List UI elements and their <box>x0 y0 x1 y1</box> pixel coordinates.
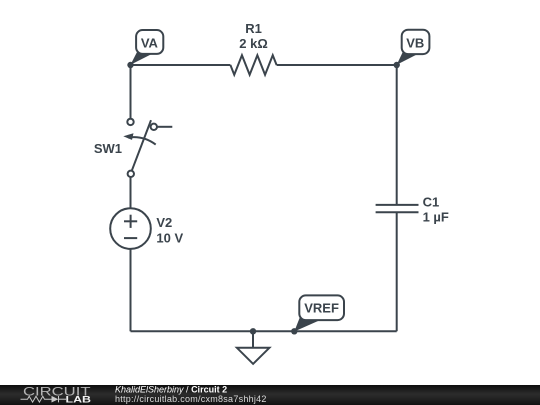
capacitor C1 plates <box>376 204 419 206</box>
svg-text:http://circuitlab.com/cxm8sa7s: http://circuitlab.com/cxm8sa7shhj42 <box>115 394 267 404</box>
wire V2 to bottom rail <box>130 249 132 331</box>
switch SW1 top pole circle <box>127 119 133 125</box>
svg-text:SW1: SW1 <box>94 141 122 156</box>
switch SW1 arrow head <box>123 133 133 140</box>
switch SW1 blade <box>132 120 151 171</box>
CircuitLab logo schematic glyph <box>21 396 67 402</box>
svg-text:VREF: VREF <box>304 300 339 315</box>
svg-text:VB: VB <box>406 36 424 51</box>
switch SW1 actuation arc <box>128 137 156 144</box>
voltage source V2 minus sign <box>124 237 137 239</box>
CircuitLab logo diode triangle <box>52 396 59 403</box>
wire top-right segment <box>277 64 397 66</box>
resistor R1 <box>230 55 276 75</box>
ground triangle <box>237 348 270 364</box>
svg-text:V2: V2 <box>156 215 172 230</box>
wire right upper (VB to capacitor) <box>396 65 398 205</box>
node label VB box <box>402 30 430 54</box>
junction dot VB <box>394 62 400 68</box>
svg-text:C1: C1 <box>423 194 440 209</box>
svg-text:VA: VA <box>141 36 159 51</box>
junction dot VREF <box>291 328 297 334</box>
voltage source V2 plus sign <box>124 220 137 222</box>
wire capacitor to bottom rail <box>396 212 398 331</box>
junction dot VA <box>127 62 133 68</box>
node label VREF tail <box>294 316 320 331</box>
switch SW1 throw circle <box>151 124 157 130</box>
footer bar background <box>0 385 540 405</box>
svg-text:1 µF: 1 µF <box>423 210 449 225</box>
wire top-left segment <box>131 64 231 66</box>
switch SW1 throw stub wire <box>157 126 173 128</box>
svg-text:10 V: 10 V <box>156 231 183 246</box>
svg-text:R1: R1 <box>245 21 262 36</box>
junction dot ground <box>250 328 256 334</box>
wire bottom rail <box>131 330 397 332</box>
wire left upper (VA to switch) <box>130 65 132 119</box>
svg-text:2 kΩ: 2 kΩ <box>239 36 268 51</box>
switch SW1 bottom circle <box>128 171 134 177</box>
voltage source V2 circle <box>110 208 151 249</box>
node label VA box <box>136 30 163 54</box>
svg-text:LAB: LAB <box>66 395 92 405</box>
ground stub wire <box>252 331 254 348</box>
node label VB tail <box>397 51 418 65</box>
node label VA tail <box>131 51 153 65</box>
node label VREF box <box>299 295 344 320</box>
wire switch to V2 <box>130 177 132 209</box>
